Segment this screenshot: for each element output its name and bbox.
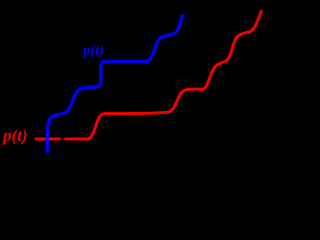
wire: red main staircase: [66, 11, 262, 139]
red curve p(t): staircase of oscillator 2: [36, 11, 261, 139]
label p(t) blue: [83, 43, 104, 60]
blue curve p(t): staircase of oscillator 1: [47, 16, 182, 152]
label p(t) red: [3, 126, 28, 146]
wire: red left dash segment: [36, 138, 60, 141]
